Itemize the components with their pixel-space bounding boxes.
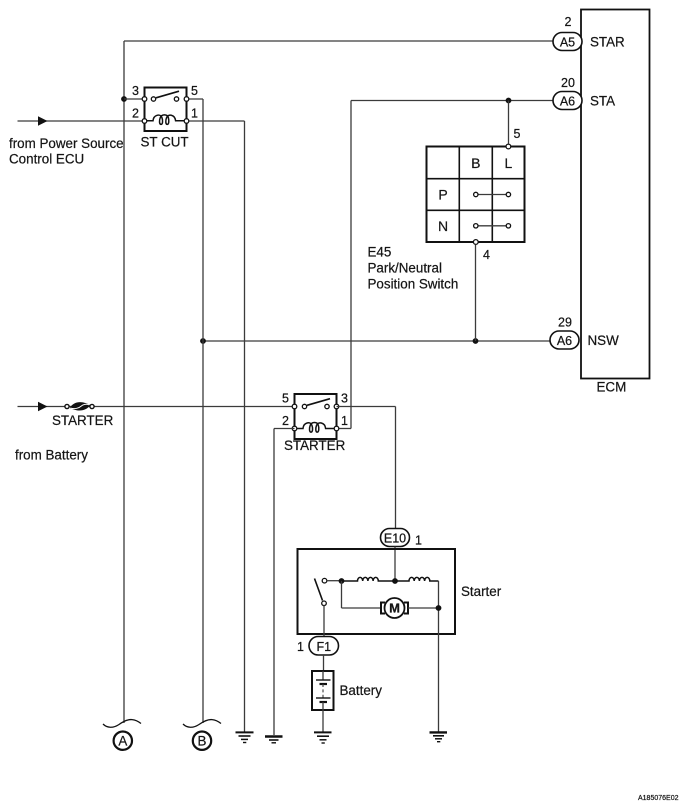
battery cells (322, 671, 324, 680)
svg-text:A6: A6 (560, 94, 575, 108)
relay STARTER terminal 2 (292, 426, 297, 431)
wire E45 pin5 up (508, 101, 510, 144)
wire vertical A (x=124) (123, 41, 125, 723)
wire F1 to battery (323, 655, 325, 671)
svg-text:2: 2 (565, 15, 572, 29)
relay ST CUT terminal 5 (184, 97, 189, 102)
svg-text:1: 1 (191, 107, 198, 121)
svg-text:STARTER: STARTER (284, 438, 346, 453)
svg-text:STAR: STAR (590, 35, 625, 50)
svg-text:from Battery: from Battery (15, 448, 88, 463)
svg-text:A6: A6 (557, 334, 572, 348)
relay STARTER switch lever (307, 399, 330, 406)
relay STARTER internal contact right (325, 404, 329, 408)
svg-text:Control ECU: Control ECU (9, 152, 84, 167)
svg-text:20: 20 (561, 76, 575, 90)
connector A6 (NSW) (550, 331, 579, 349)
relay STARTER box (295, 394, 337, 439)
wire switch top to junction (327, 580, 342, 582)
wire STAR: A5 to vertical A (124, 40, 553, 42)
svg-text:STA: STA (590, 94, 615, 109)
ground below starter box right leg (430, 732, 448, 741)
switch E45 grid box (427, 147, 525, 243)
relay ST CUT internal contact left (151, 97, 155, 101)
connector F1 (309, 637, 339, 656)
svg-text:1: 1 (341, 414, 348, 428)
svg-text:2: 2 (132, 107, 139, 121)
relay ST CUT switch lever (156, 91, 179, 98)
svg-text:3: 3 (341, 392, 348, 406)
relay ST CUT box (145, 88, 187, 132)
svg-text:B: B (198, 734, 207, 749)
relay STARTER terminal 1 (334, 426, 339, 431)
svg-text:Starter: Starter (461, 584, 502, 599)
svg-text:5: 5 (282, 392, 289, 406)
wire motor right (408, 607, 439, 609)
connector A6 (STA) (553, 92, 582, 110)
node junction STA / E45 pin5 (506, 98, 512, 104)
svg-text:N: N (438, 218, 448, 234)
wire NSW horizontal (203, 340, 550, 342)
terminal pin 5 of E45 (506, 144, 511, 149)
starter box (298, 549, 456, 634)
wire vertical STA down (x=351) (350, 101, 352, 429)
svg-text:Position Switch: Position Switch (368, 277, 459, 292)
svg-text:from Power Source: from Power Source (9, 136, 124, 151)
wire STA: A6 to bend (351, 100, 553, 102)
svg-text:A185076E02: A185076E02 (638, 795, 679, 802)
ground below STARTER relay pin2 leg (body ground) (265, 737, 283, 743)
ECM box (581, 10, 650, 379)
terminal pin 4 of E45 (473, 240, 478, 245)
wire E45 pin4 down (475, 245, 477, 341)
svg-text:A5: A5 (560, 35, 575, 49)
wire vertical ground leg (x=245.5) (244, 121, 246, 732)
relay ST CUT terminal 2 (142, 119, 147, 124)
contact P row (476, 194, 509, 196)
wire motor branch left (341, 581, 343, 608)
svg-text:A: A (118, 734, 127, 749)
svg-text:P: P (438, 187, 447, 203)
wire right side down (438, 581, 440, 732)
wire stub to ST CUT pin 3 (124, 98, 145, 100)
svg-text:B: B (471, 155, 480, 171)
fuse STARTER (70, 402, 90, 410)
wire vertical B (x=203) (202, 99, 204, 723)
svg-text:2: 2 (282, 414, 289, 428)
svg-text:Park/Neutral: Park/Neutral (368, 261, 442, 276)
starter switch contact top (322, 578, 327, 583)
arrow battery input (38, 402, 48, 411)
node junction left coil (339, 578, 345, 584)
break wave above node A (103, 720, 141, 728)
svg-text:F1: F1 (317, 640, 332, 654)
svg-text:4: 4 (483, 248, 490, 262)
svg-text:E10: E10 (384, 531, 406, 545)
relay ST CUT terminal 3 (142, 97, 147, 102)
svg-text:E45: E45 (368, 245, 392, 260)
wire from Battery main (18, 406, 295, 408)
wire STARTER pin2 to ground (274, 428, 295, 430)
contact N row (476, 225, 509, 227)
svg-text:NSW: NSW (588, 333, 620, 348)
connector E10 (381, 529, 410, 547)
svg-text:L: L (505, 155, 513, 171)
svg-text:1: 1 (415, 534, 422, 548)
coil 2 (starter) (395, 577, 439, 581)
motor M (385, 598, 405, 618)
connector A5 (STAR) (553, 33, 582, 51)
svg-text:5: 5 (191, 84, 198, 98)
wire switch bottom to F1 (323, 605, 325, 636)
relay STARTER terminal 3 (334, 404, 339, 409)
node junction motor right (436, 605, 442, 611)
svg-text:M: M (389, 601, 400, 616)
wire E10 into starter box (394, 547, 396, 582)
battery box (312, 671, 334, 710)
wire ST CUT pin1 to ground leg (187, 120, 245, 122)
starter switch contact bottom (322, 601, 327, 606)
break wave above node B (183, 720, 221, 728)
svg-text:5: 5 (514, 127, 521, 141)
node B circle (193, 732, 211, 750)
relay ST CUT terminal 1 (184, 119, 189, 124)
svg-text:ST CUT: ST CUT (141, 135, 189, 150)
wire ST CUT pin5 stub (187, 98, 204, 100)
svg-text:Battery: Battery (340, 683, 383, 698)
node A circle (114, 732, 132, 750)
svg-text:1: 1 (297, 640, 304, 654)
svg-text:29: 29 (558, 316, 572, 330)
node junction at ST CUT pin3 (121, 96, 127, 102)
node junction NSW / E45 pin4 (473, 338, 479, 344)
relay ST CUT coil (145, 115, 185, 125)
coil 1 (starter) (342, 577, 396, 581)
relay ST CUT internal contact right (174, 97, 178, 101)
svg-text:STARTER: STARTER (52, 413, 114, 428)
relay STARTER terminal 5 (292, 404, 297, 409)
starter switch lever (315, 579, 323, 601)
relay STARTER internal contact left (302, 404, 306, 408)
ground below battery (314, 732, 332, 743)
node junction mid coil (392, 578, 398, 584)
wire STARTER relay pin1 stub (337, 428, 352, 430)
relay STARTER coil (295, 423, 335, 433)
wire STARTER pin3 to E10 (337, 406, 396, 408)
node junction NSW / vertical B (200, 338, 206, 344)
arrow power source input (38, 116, 48, 125)
svg-text:3: 3 (132, 84, 139, 98)
svg-text:ECM: ECM (597, 380, 627, 395)
ground below ST CUT pin1 leg (236, 732, 254, 742)
wire from Power Source Control ECU (18, 120, 145, 122)
